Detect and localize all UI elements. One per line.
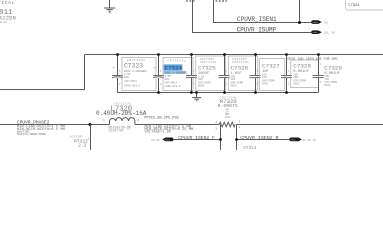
svg-text:2.2: 2.2 — [78, 144, 86, 149]
svg-text:+: + — [154, 67, 156, 71]
routing notes (PPVCC) — [145, 125, 194, 134]
svg-text:CAP-POLY: CAP-POLY — [164, 81, 177, 84]
svg-text:CPUVR_ISEN2_R: CPUVR_ISEN2_R — [240, 135, 278, 141]
wire CPUVR_ISUMP — [193, 0, 312, 33]
ground (cap bank) — [192, 93, 201, 101]
capacitor C7327 — [250, 53, 285, 94]
svg-text:50, 56: 50, 56 — [324, 32, 335, 35]
capacitor C7326 — [219, 53, 258, 94]
svg-text:CAP-POLY: CAP-POLY — [124, 80, 137, 83]
svg-text:C7329: C7329 — [324, 64, 342, 71]
svg-text:CPUVR_ISUMP: CPUVR_ISUMP — [237, 27, 277, 34]
L7311 partial labels (top-left, cut off by crop) — [0, 0, 16, 24]
junction ground stub — [195, 91, 198, 94]
svg-text:SWITCH_NODE=TRUE: SWITCH_NODE=TRUE — [17, 133, 46, 136]
svg-text:1: 1 — [119, 70, 121, 73]
svg-text:C7324: C7324 — [165, 65, 183, 72]
capacitor C7329 — [313, 53, 343, 92]
svg-text:CRITICAL: CRITICAL — [168, 59, 187, 62]
svg-text:40-08: 40-08 — [0, 21, 7, 24]
svg-text:CPUVR_ISEN1: CPUVR_ISEN1 — [237, 16, 277, 23]
svg-text:C7325: C7325 — [198, 64, 216, 71]
svg-text:C7323: C7323 — [124, 62, 143, 69]
svg-text:1: 1 — [215, 121, 217, 124]
capacitor C7323 — [112, 53, 156, 92]
svg-text:56: 56 — [324, 21, 328, 24]
svg-text:1: 1 — [288, 69, 290, 72]
sense line left (pin 3) — [220, 125, 222, 151]
routing notes (phase) — [17, 125, 66, 136]
svg-text:4: 4 — [239, 126, 241, 129]
main output wire (phase node / PPVCC) — [0, 124, 109, 126]
svg-text:15201797: 15201797 — [109, 129, 124, 133]
svg-text:+: + — [113, 67, 115, 71]
svg-text:2: 2 — [193, 82, 195, 85]
svg-text:2: 2 — [257, 82, 259, 85]
junction — [235, 138, 238, 141]
svg-text:20%: 20% — [164, 78, 169, 81]
resistor R7320 (current sense) — [215, 97, 240, 131]
svg-text:CASE-H13-1: CASE-H13-1 — [124, 85, 141, 88]
svg-text:TICAL: TICAL — [0, 0, 15, 6]
svg-text:3: 3 — [215, 128, 217, 131]
svg-text:1: 1 — [160, 70, 162, 73]
svg-text:THESE TWO CAPS ARE FOR EMC: THESE TWO CAPS ARE FOR EMC — [286, 58, 338, 62]
svg-text:1: 1 — [88, 138, 90, 141]
svg-text:1: 1 — [193, 69, 195, 72]
bottom ground rail — [118, 92, 319, 94]
svg-text:56 58: 56 58 — [151, 139, 160, 142]
wire CPUVR_ISEN2_R — [237, 139, 290, 141]
svg-text:2: 2 — [239, 120, 241, 123]
svg-text:HISTORY: HISTORY — [70, 135, 83, 138]
resistor R7322 labels — [70, 135, 89, 148]
svg-text:CPUVR_ISEN2_F: CPUVR_ISEN2_F — [178, 135, 215, 141]
svg-text:PM51: PM51 — [165, 138, 171, 141]
svg-text:PPVCC_S0_CPU_PH2: PPVCC_S0_CPU_PH2 — [144, 117, 179, 121]
top rail PPVCC_S0_CPU — [85, 54, 383, 56]
off-page connector CPUVR_ISUMP — [311, 30, 335, 34]
wire PPVCC feed from left — [0, 55, 85, 90]
svg-text:C7327: C7327 — [262, 62, 280, 69]
ground (top-left) — [104, 0, 115, 13]
svg-text:2: 2 — [288, 82, 290, 85]
svg-text:PM51: PM51 — [291, 138, 297, 141]
svg-text:1: 1 — [320, 63, 322, 66]
svg-text:2: 2 — [160, 83, 162, 86]
svg-text:0402: 0402 — [324, 84, 331, 87]
svg-text:2: 2 — [226, 82, 228, 85]
svg-text:1: 1 — [257, 69, 259, 72]
wire to R7322 — [90, 125, 92, 151]
off-page connector CPUVR_ISEN1 — [311, 20, 328, 24]
svg-text:PM51: PM51 — [313, 31, 319, 34]
svg-text:1: 1 — [226, 69, 228, 72]
svg-text:2: 2 — [119, 83, 121, 86]
svg-text:C7328: C7328 — [293, 62, 311, 69]
svg-text:2: 2 — [137, 119, 139, 122]
svg-text:CASE-H13-1: CASE-H13-1 — [164, 85, 181, 88]
svg-text:C7326: C7326 — [231, 64, 249, 71]
svg-text:1: 1 — [103, 119, 105, 122]
capacitor C7328 — [281, 53, 318, 94]
wire CPUVR_ISEN2_F — [174, 139, 221, 141]
inductor L7320 — [96, 102, 147, 132]
svg-text:0402: 0402 — [262, 82, 269, 85]
junction (phase to R7322) — [89, 123, 92, 126]
wire from top into ISEN1 — [299, 0, 301, 23]
svg-text:VOLTAGE=1.8V: VOLTAGE=1.8V — [145, 131, 172, 135]
off-page connector CPUVR_ISEN2_F (left) — [151, 138, 173, 143]
capacitor C7324 (highlighted) — [153, 53, 193, 94]
svg-text:PM51: PM51 — [313, 21, 319, 24]
capacitor C7325 — [186, 53, 225, 94]
svg-text:0805: 0805 — [198, 84, 205, 87]
svg-text:0.40UH-20%-16A: 0.40UH-20%-16A — [96, 110, 147, 117]
tooltip C7324 (top-right) — [346, 0, 383, 10]
sense line right (pin 4) — [236, 125, 238, 151]
top edge text fragments — [186, 0, 227, 2]
svg-text:C7324: C7324 — [348, 4, 360, 8]
junction — [219, 138, 222, 141]
svg-text:R7324: R7324 — [243, 146, 256, 150]
junction on ISEN1 — [298, 21, 301, 24]
svg-text:20%: 20% — [124, 76, 129, 79]
off-page connector CPUVR_ISEN2_R (right) — [289, 137, 316, 142]
svg-text:41 50 56: 41 50 56 — [303, 139, 317, 142]
svg-text:0402: 0402 — [293, 82, 300, 85]
wire CPUVR_ISEN1 — [214, 0, 312, 23]
svg-text:2: 2 — [320, 81, 322, 84]
svg-text:2512: 2512 — [225, 116, 231, 119]
svg-text:0603: 0603 — [231, 84, 238, 87]
